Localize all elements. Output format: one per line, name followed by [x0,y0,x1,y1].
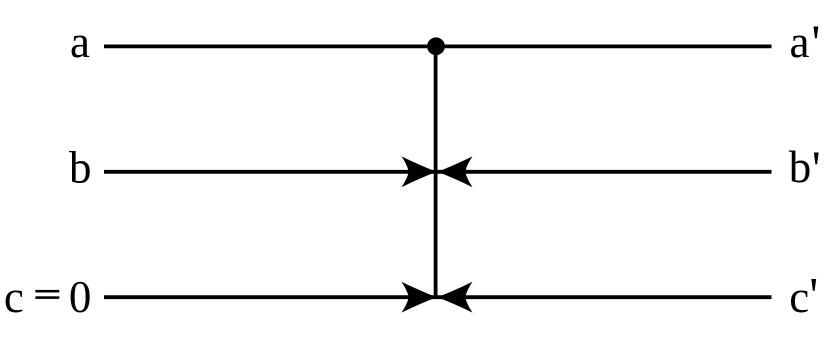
svg-text:': ' [812,140,821,196]
svg-text:0: 0 [69,272,92,322]
svg-text:b: b [69,142,92,192]
svg-text:b: b [789,142,812,192]
svg-text:a: a [790,17,810,67]
svg-text:': ' [809,267,818,323]
svg-text:a: a [70,17,90,67]
svg-text:c: c [4,272,24,322]
svg-text:': ' [811,14,820,70]
svg-text:c: c [789,272,809,322]
